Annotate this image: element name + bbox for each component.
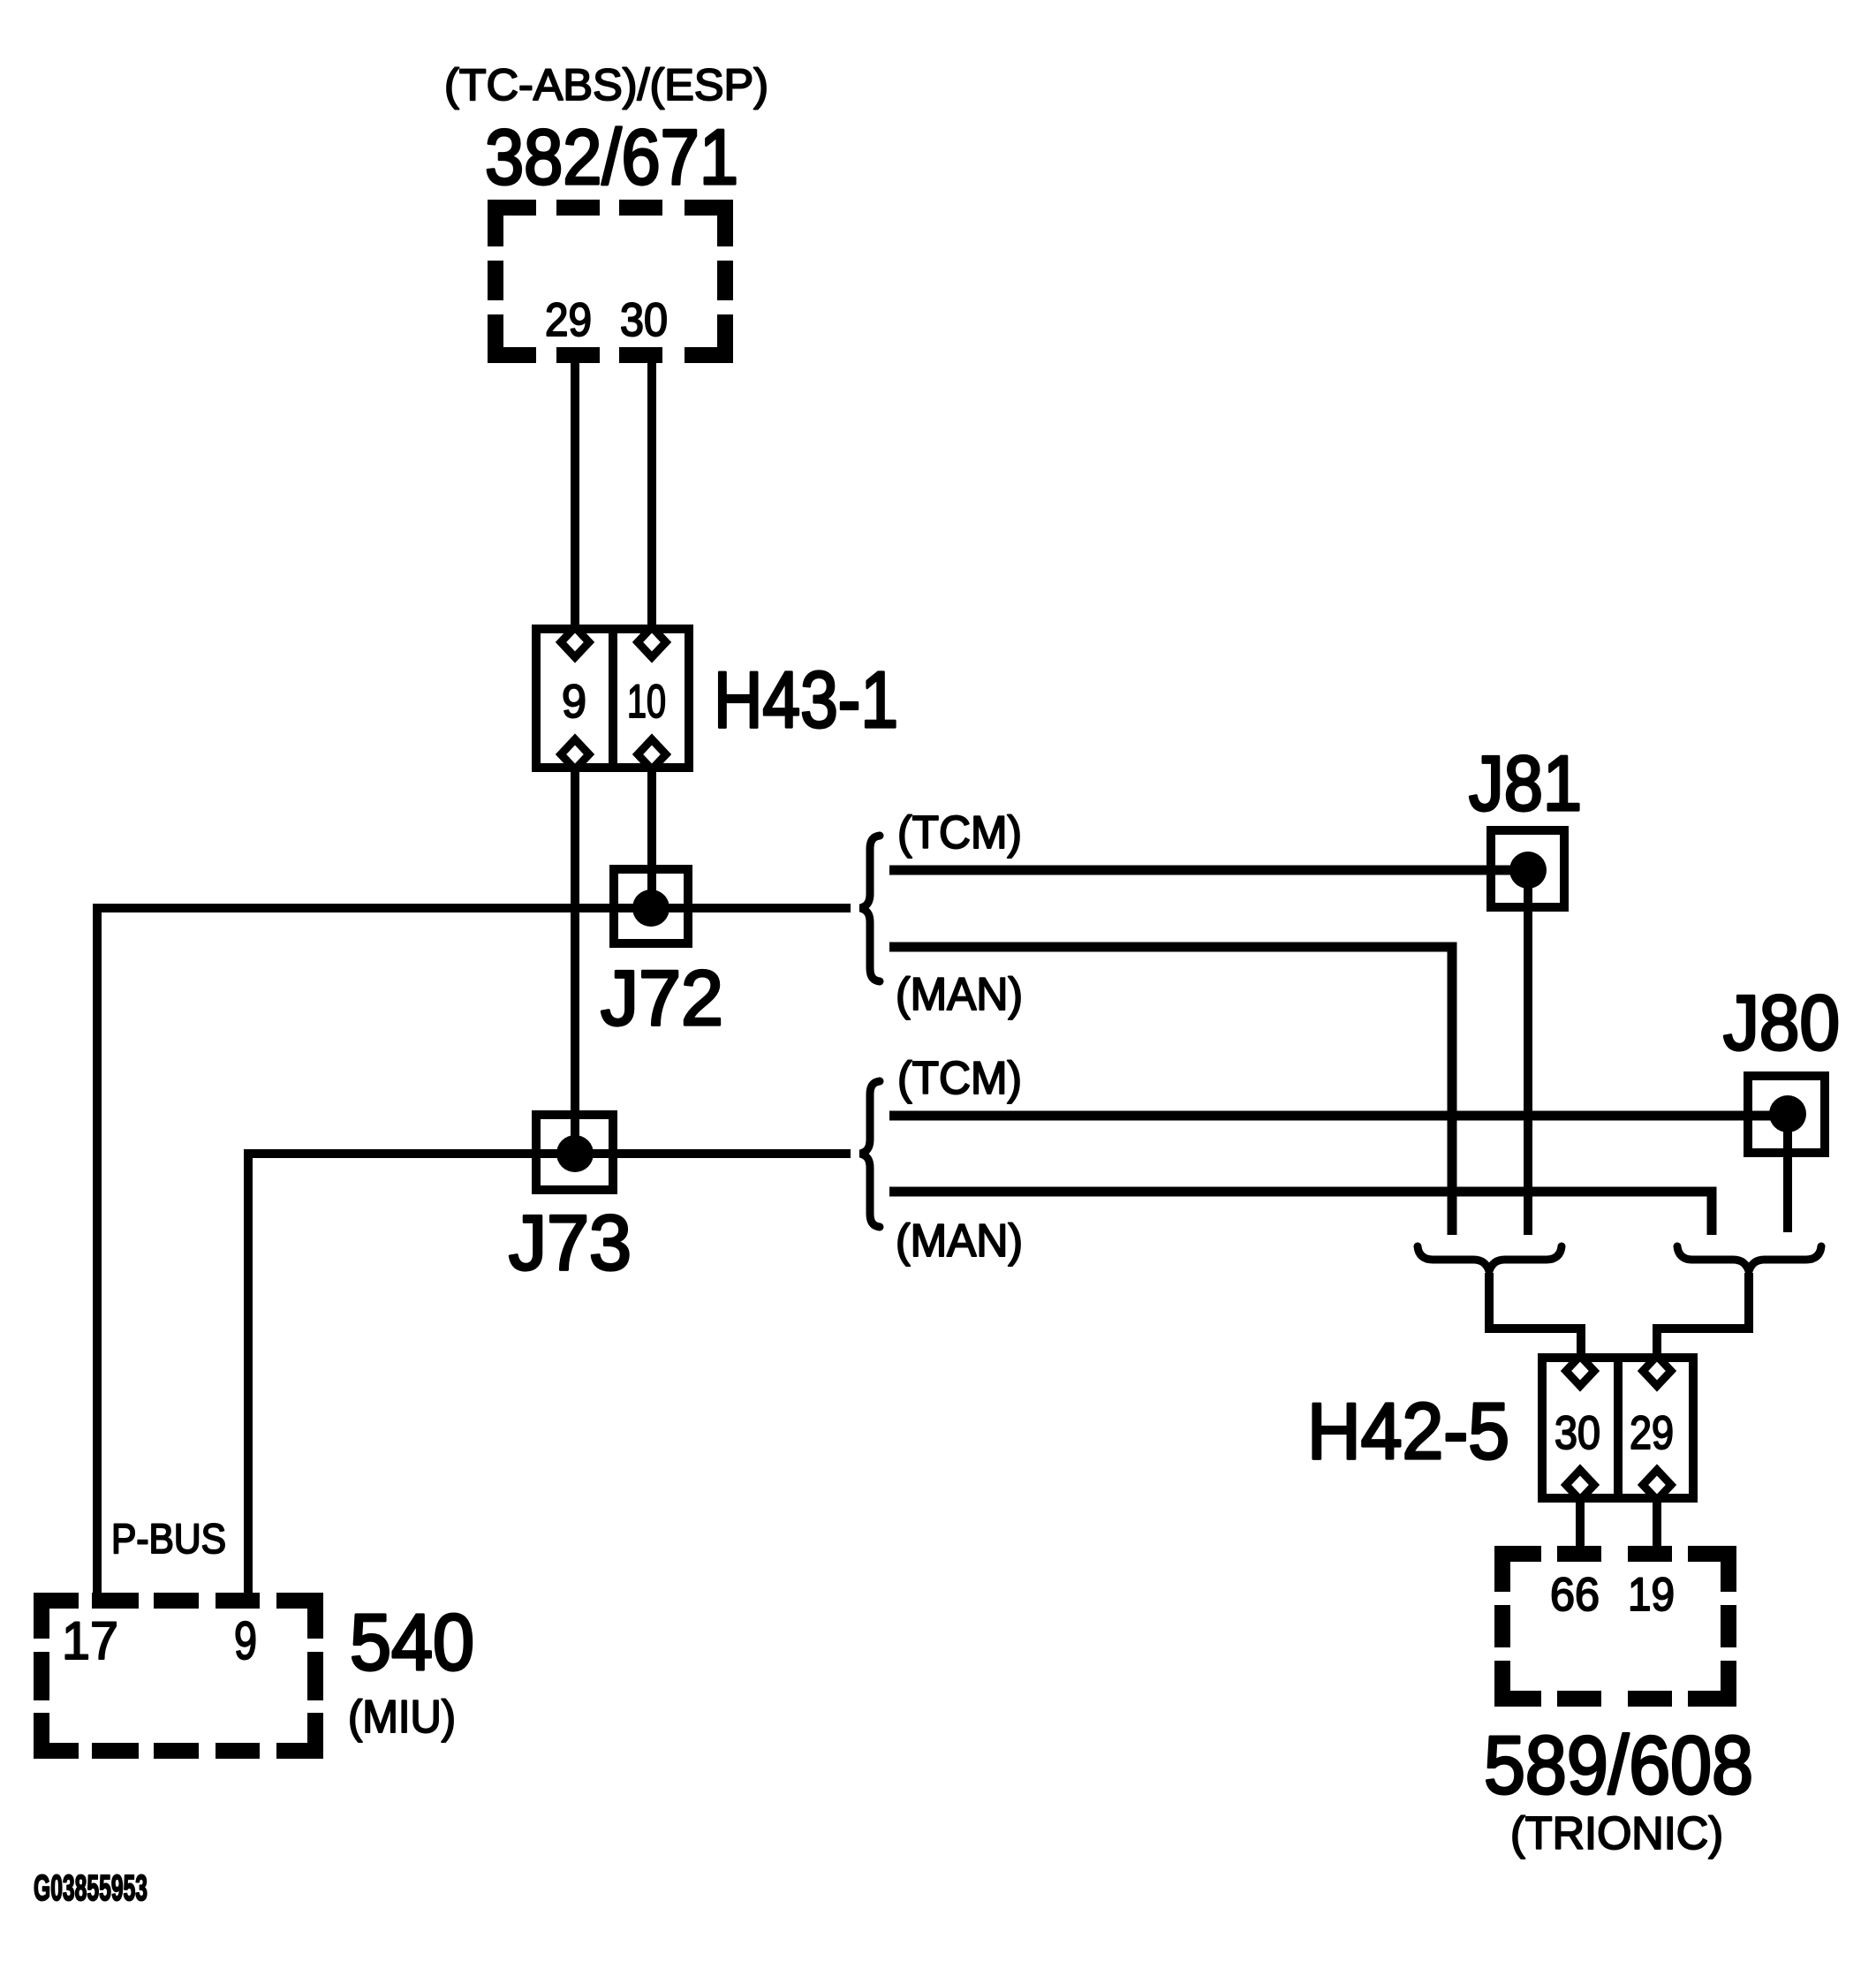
svg-text:(TCM): (TCM) — [897, 1053, 1022, 1104]
svg-text:G03855953: G03855953 — [34, 1867, 148, 1908]
svg-text:(TC-ABS)/(ESP): (TC-ABS)/(ESP) — [444, 60, 768, 110]
svg-text:J72: J72 — [601, 954, 723, 1041]
svg-text:9: 9 — [234, 1611, 257, 1670]
svg-text:19: 19 — [1628, 1569, 1675, 1621]
svg-text:(MAN): (MAN) — [896, 1215, 1023, 1267]
svg-text:H43-1: H43-1 — [714, 656, 898, 745]
svg-text:30: 30 — [620, 294, 668, 346]
svg-text:(MAN): (MAN) — [896, 969, 1023, 1020]
svg-text:30: 30 — [1555, 1407, 1600, 1459]
svg-text:540: 540 — [350, 1599, 474, 1687]
svg-text:J80: J80 — [1723, 979, 1840, 1066]
svg-text:66: 66 — [1550, 1569, 1600, 1621]
svg-text:9: 9 — [562, 676, 586, 728]
svg-text:29: 29 — [1630, 1407, 1674, 1459]
svg-text:H42-5: H42-5 — [1307, 1388, 1509, 1476]
svg-text:(TCM): (TCM) — [897, 807, 1022, 859]
svg-text:P-BUS: P-BUS — [111, 1515, 226, 1562]
svg-text:17: 17 — [62, 1611, 118, 1670]
svg-text:(MIU): (MIU) — [348, 1692, 456, 1743]
svg-text:382/671: 382/671 — [485, 113, 738, 201]
svg-text:J81: J81 — [1469, 739, 1582, 827]
svg-text:(TRIONIC): (TRIONIC) — [1510, 1808, 1723, 1859]
svg-text:589/608: 589/608 — [1484, 1719, 1753, 1811]
svg-text:J73: J73 — [509, 1199, 632, 1286]
svg-text:10: 10 — [627, 676, 666, 728]
svg-text:29: 29 — [545, 294, 592, 346]
